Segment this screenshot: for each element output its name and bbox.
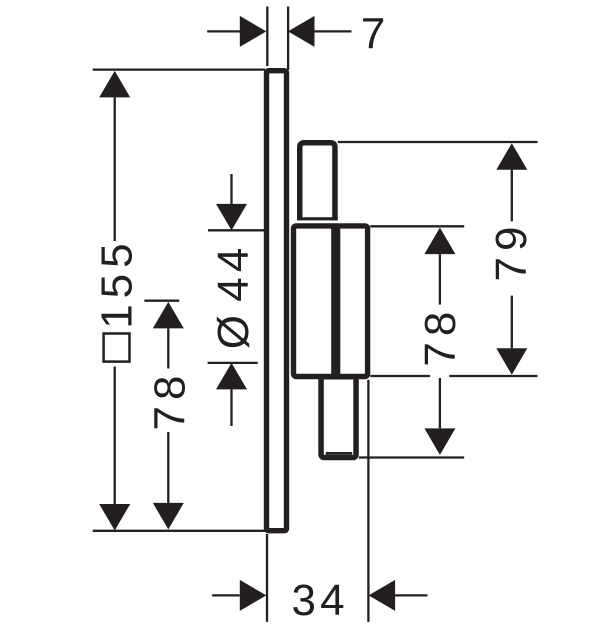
dim 44 top tail — [230, 174, 232, 204]
top box top extension line (79 top anchor) — [338, 141, 538, 143]
plate top extension line — [93, 68, 265, 70]
dim 34 right arrow — [369, 580, 396, 611]
svg-text:Ø44: Ø44 — [209, 242, 258, 349]
top handle box — [300, 143, 335, 221]
dim 155 down arrow — [99, 504, 130, 531]
dim 34 left extension line — [266, 534, 268, 622]
dim 78R upper shaft — [439, 254, 441, 305]
dim 44 down arrow — [216, 204, 247, 231]
dim 155 upper shaft — [114, 97, 116, 241]
dim 79 lower shaft — [511, 296, 513, 349]
dim 44 top tick — [208, 229, 265, 231]
plate bottom extension line — [93, 530, 265, 532]
axis tick (78 left top anchor) — [144, 300, 179, 302]
dim 44 up arrow — [216, 363, 247, 390]
middle box top extension line (78R top anchor) — [370, 225, 464, 227]
valve body (middle box) — [294, 226, 368, 377]
bottom handle box — [321, 377, 356, 458]
svg-text:7: 7 — [361, 10, 390, 59]
extension line 7 left — [266, 7, 268, 67]
dim 34 right extension line — [367, 380, 369, 622]
dim 79 upper shaft — [511, 170, 513, 222]
bottom box bottom extension line (78R bottom anchor) — [359, 456, 464, 458]
dim 44 bottom tail — [230, 389, 232, 426]
dim 7 right arrow — [288, 16, 315, 47]
dim 7 left tail — [207, 30, 240, 32]
dim 78L lower shaft — [167, 432, 169, 503]
dim 78L down arrow — [153, 503, 184, 530]
label square of 155 — [104, 334, 130, 362]
dim 34 left tail — [212, 594, 240, 596]
dim 155 up arrow — [99, 71, 130, 98]
svg-text:78: 78 — [416, 306, 465, 367]
dim 155 lower shaft — [114, 367, 116, 505]
svg-text:78: 78 — [145, 370, 194, 431]
svg-text:34: 34 — [292, 576, 349, 625]
dim 7 right tail — [315, 30, 352, 32]
middle box bottom extension line (79 bottom anchor), gap for 78 shaft — [370, 375, 430, 377]
dim 7 left arrow — [240, 16, 266, 47]
svg-text:155: 155 — [93, 237, 142, 328]
dim 79 up arrow — [496, 143, 527, 170]
dim 78R lower shaft — [439, 378, 441, 428]
internal stem bar — [331, 227, 340, 377]
svg-text:79: 79 — [487, 221, 536, 282]
plate (escutcheon side view) — [267, 71, 287, 531]
extension line 7 right — [287, 7, 289, 71]
dim 44 bottom tick — [208, 362, 258, 364]
dim 79 down arrow — [496, 348, 527, 375]
dim 78R up arrow — [424, 228, 455, 255]
dim 34 right tail — [395, 594, 427, 596]
dim 34 left arrow — [240, 580, 266, 611]
dim 78L up arrow — [153, 302, 184, 329]
dim 78L upper shaft — [167, 328, 169, 368]
bottom handle inner edge line — [326, 452, 353, 455]
dim 78R down arrow — [424, 428, 455, 455]
